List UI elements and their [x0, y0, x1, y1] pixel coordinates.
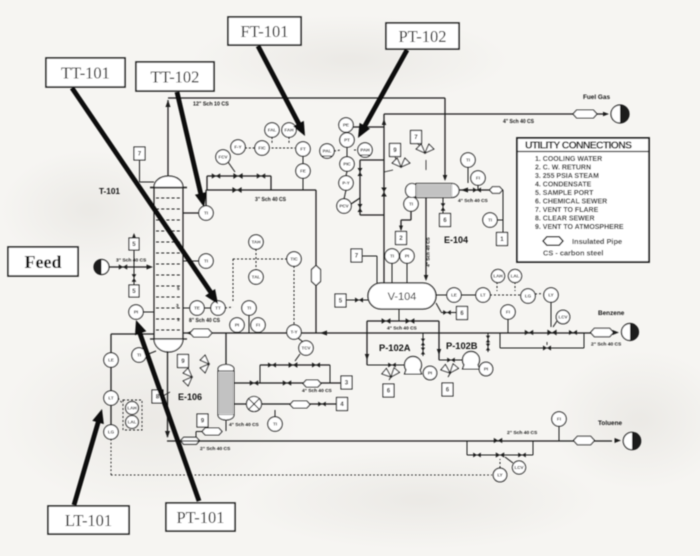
svg-text:TCV: TCV: [302, 346, 311, 351]
svg-text:4" Sch 40 CS: 4" Sch 40 CS: [387, 326, 418, 332]
svg-text:TI: TI: [247, 306, 251, 311]
svg-text:FAL: FAL: [268, 128, 277, 133]
svg-text:TI: TI: [466, 158, 470, 163]
svg-text:LAL: LAL: [128, 420, 137, 425]
svg-text:TI: TI: [204, 211, 208, 216]
svg-text:TT-101: TT-101: [61, 63, 110, 82]
svg-text:TAH: TAH: [252, 240, 261, 245]
svg-text:7: 7: [355, 253, 359, 260]
svg-text:UTILITY CONNECTIONS: UTILITY CONNECTIONS: [525, 141, 632, 152]
svg-text:9: 9: [201, 418, 205, 425]
svg-text:Feed: Feed: [25, 252, 62, 272]
svg-text:P-102A: P-102A: [379, 343, 411, 353]
svg-text:5: 5: [177, 286, 180, 291]
svg-text:PIC: PIC: [343, 162, 351, 167]
svg-text:4" Sch 40 CS: 4" Sch 40 CS: [426, 236, 432, 267]
svg-text:5: 5: [339, 298, 343, 305]
svg-text:1: 1: [500, 236, 504, 243]
svg-text:TAL: TAL: [252, 275, 261, 280]
svg-text:LAL: LAL: [511, 274, 520, 279]
svg-text:FAH: FAH: [285, 128, 294, 133]
svg-text:LCV: LCV: [515, 465, 524, 470]
svg-text:9. VENT TO ATMOSPHERE: 9. VENT TO ATMOSPHERE: [535, 224, 624, 231]
svg-text:LAH: LAH: [493, 274, 502, 279]
svg-text:TT-102: TT-102: [151, 67, 200, 86]
svg-text:E-104: E-104: [444, 235, 468, 245]
svg-text:2" Sch 40 CS: 2" Sch 40 CS: [200, 446, 231, 452]
svg-text:LAH: LAH: [127, 406, 136, 411]
svg-text:2: 2: [399, 235, 403, 242]
svg-text:LE: LE: [108, 358, 114, 363]
svg-text:3: 3: [345, 380, 349, 387]
svg-text:TE: TE: [194, 306, 200, 311]
svg-text:PI: PI: [484, 367, 488, 372]
svg-text:LCV: LCV: [559, 315, 568, 320]
svg-text:3: 3: [176, 303, 179, 308]
svg-text:TT: TT: [215, 306, 221, 311]
svg-text:3" Sch 40 CS: 3" Sch 40 CS: [116, 258, 147, 264]
svg-text:TI: TI: [409, 202, 413, 207]
svg-text:TIC: TIC: [290, 257, 298, 262]
svg-text:LY: LY: [548, 293, 553, 298]
svg-text:PT-101: PT-101: [177, 508, 225, 527]
svg-text:4" Sch 40 CS: 4" Sch 40 CS: [503, 119, 535, 125]
svg-text:Toluene: Toluene: [598, 420, 622, 427]
svg-text:4" Sch 40 CS: 4" Sch 40 CS: [458, 198, 489, 204]
svg-text:FIC: FIC: [258, 146, 266, 151]
svg-text:LT-101: LT-101: [65, 511, 112, 530]
svg-text:F-Y: F-Y: [234, 145, 241, 150]
svg-text:TI: TI: [390, 254, 394, 259]
svg-text:PAH: PAH: [360, 148, 369, 153]
svg-text:PI: PI: [405, 254, 409, 259]
svg-text:FT-101: FT-101: [241, 22, 289, 41]
svg-text:7: 7: [138, 151, 142, 158]
svg-text:6: 6: [443, 217, 447, 224]
svg-text:FI: FI: [256, 323, 260, 328]
svg-text:4" Sch 40 CS: 4" Sch 40 CS: [229, 422, 260, 428]
svg-text:5: 5: [132, 288, 136, 295]
svg-text:PT-102: PT-102: [399, 27, 447, 46]
svg-text:FE: FE: [300, 169, 306, 174]
svg-text:T-Y: T-Y: [290, 330, 297, 335]
svg-text:2. C. W. RETURN: 2. C. W. RETURN: [535, 165, 591, 172]
svg-text:LG: LG: [108, 430, 115, 435]
svg-text:6: 6: [460, 310, 464, 317]
svg-text:PI: PI: [134, 310, 138, 315]
svg-text:1. COOLING WATER: 1. COOLING WATER: [535, 156, 602, 163]
svg-text:Benzene: Benzene: [598, 310, 625, 317]
svg-text:PAL: PAL: [323, 149, 332, 154]
svg-text:T-101: T-101: [99, 187, 120, 196]
svg-text:Insulated Pipe: Insulated Pipe: [572, 237, 622, 246]
svg-text:FCV: FCV: [219, 155, 228, 160]
svg-text:FI: FI: [557, 417, 561, 422]
svg-text:E-106: E-106: [178, 392, 202, 402]
svg-text:V-104: V-104: [388, 291, 417, 303]
svg-text:5: 5: [132, 241, 136, 248]
svg-text:Fuel Gas: Fuel Gas: [583, 94, 610, 101]
svg-text:7: 7: [414, 134, 418, 141]
svg-text:PT: PT: [344, 138, 350, 143]
svg-text:CS - carbon steel: CS - carbon steel: [543, 249, 603, 258]
svg-text:2" Sch 40 CS: 2" Sch 40 CS: [507, 430, 538, 436]
svg-text:8" Sch 40 CS: 8" Sch 40 CS: [189, 318, 221, 324]
svg-text:5. SAMPLE PORT: 5. SAMPLE PORT: [535, 190, 594, 197]
svg-text:8. CLEAR SEWER: 8. CLEAR SEWER: [535, 216, 595, 223]
svg-text:PCV: PCV: [339, 204, 348, 209]
svg-text:9: 9: [181, 358, 185, 365]
svg-text:PI: PI: [235, 323, 239, 328]
svg-text:LG: LG: [525, 294, 532, 299]
svg-text:3. 255 PSIA STEAM: 3. 255 PSIA STEAM: [535, 173, 599, 180]
svg-text:LY: LY: [497, 473, 502, 478]
svg-text:TI: TI: [204, 259, 208, 264]
svg-text:7. VENT TO FLARE: 7. VENT TO FLARE: [535, 207, 599, 214]
svg-text:TI: TI: [273, 422, 277, 427]
svg-text:FT: FT: [300, 147, 306, 152]
svg-text:LT: LT: [108, 396, 113, 401]
svg-text:1: 1: [177, 317, 180, 322]
svg-text:P-102B: P-102B: [446, 341, 478, 351]
svg-text:4: 4: [340, 401, 344, 408]
svg-text:LE: LE: [451, 293, 457, 298]
svg-text:PI: PI: [428, 371, 432, 376]
svg-text:6. CHEMICAL SEWER: 6. CHEMICAL SEWER: [535, 199, 607, 206]
svg-text:FI: FI: [476, 176, 480, 181]
svg-text:TI: TI: [488, 218, 492, 223]
svg-text:PE: PE: [343, 123, 349, 128]
svg-text:6: 6: [387, 388, 391, 395]
svg-text:3" Sch 40 CS: 3" Sch 40 CS: [255, 197, 287, 203]
svg-text:LT: LT: [480, 293, 485, 298]
svg-text:4" Sch 40 CS: 4" Sch 40 CS: [302, 388, 333, 394]
svg-text:6: 6: [446, 387, 450, 394]
svg-text:P-Y: P-Y: [342, 181, 350, 186]
svg-text:4. CONDENSATE: 4. CONDENSATE: [535, 182, 592, 189]
svg-text:12" Sch 10 CS: 12" Sch 10 CS: [193, 102, 229, 108]
svg-text:9: 9: [393, 147, 397, 154]
svg-text:2" Sch 40 CS: 2" Sch 40 CS: [591, 342, 622, 348]
svg-text:TI: TI: [137, 353, 141, 358]
svg-text:FI: FI: [506, 310, 510, 315]
